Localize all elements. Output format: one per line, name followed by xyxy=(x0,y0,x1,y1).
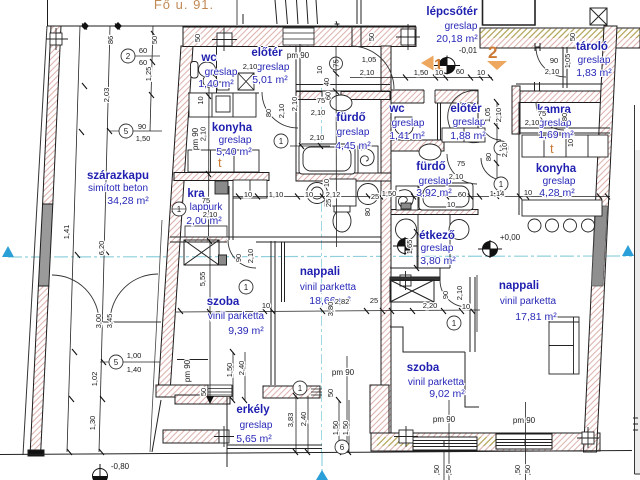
svg-text:75: 75 xyxy=(538,109,546,118)
svg-text:1: 1 xyxy=(499,180,504,189)
svg-text:40: 40 xyxy=(322,78,331,86)
erkely west jamb xyxy=(370,385,389,433)
section marker triangle bottom xyxy=(316,470,328,480)
svg-text:tároló: tároló xyxy=(576,41,608,53)
szobaL/nappaliL divider xyxy=(271,241,285,385)
dim line below windows right xyxy=(525,451,527,480)
svg-text:pm 90: pm 90 xyxy=(183,359,192,382)
korridor wall x229 xyxy=(229,186,233,240)
wall below fürdöR tub xyxy=(391,210,478,215)
svg-text:vinil parketta: vinil parketta xyxy=(500,296,557,307)
svg-text:1: 1 xyxy=(298,384,303,393)
dim vertical 5-55 xyxy=(209,241,211,398)
kamra door arc xyxy=(536,102,564,130)
svg-text:1,50: 1,50 xyxy=(136,134,151,143)
svg-text:1,50: 1,50 xyxy=(225,363,234,378)
svg-text:2,10: 2,10 xyxy=(494,108,503,123)
svg-text:greslap: greslap xyxy=(445,21,478,32)
svg-text:1,41: 1,41 xyxy=(62,225,71,240)
chimney box top wall 1 xyxy=(217,33,232,46)
konyhaR door arc xyxy=(481,158,503,180)
svg-text:+0,00: +0,00 xyxy=(500,233,521,242)
elöterL/fürdöL wall x296 xyxy=(296,46,300,143)
svg-text:wc: wc xyxy=(200,52,217,64)
etkezo bottom line xyxy=(390,267,418,269)
svg-text:9,39 m²: 9,39 m² xyxy=(228,325,264,337)
fürdöR door arc xyxy=(447,154,477,184)
svg-text:2,40: 2,40 xyxy=(299,412,308,427)
dim line wcL korridor xyxy=(290,145,330,147)
wcL toilet xyxy=(199,62,216,77)
cyan vertical section line mid xyxy=(321,88,323,452)
svg-text:2,10: 2,10 xyxy=(449,172,464,181)
X-box etkezo xyxy=(390,280,434,302)
kra room rect xyxy=(233,180,267,198)
svg-text:2,82: 2,82 xyxy=(335,297,350,306)
fürdöR washer xyxy=(396,186,418,210)
svg-text:-0,01: -0,01 xyxy=(459,46,478,55)
svg-text:Fő u. 91.: Fő u. 91. xyxy=(154,0,214,12)
cross marks south right xyxy=(577,427,599,448)
pm90 line szobaR s xyxy=(448,400,450,480)
svg-text:2,10: 2,10 xyxy=(500,143,509,158)
pm90 line nappaliR s xyxy=(525,402,527,452)
svg-text:greslap: greslap xyxy=(205,67,238,78)
svg-text:vinil parketta: vinil parketta xyxy=(208,311,265,322)
dim chain vertical left1 xyxy=(67,26,80,452)
dimension ticks xyxy=(67,24,610,456)
dim chain vertical left2 xyxy=(99,26,110,452)
svg-text:90: 90 xyxy=(234,254,243,262)
svg-text:4,28 m²: 4,28 m² xyxy=(539,187,575,199)
cross marks south left xyxy=(394,426,418,447)
svg-text:10: 10 xyxy=(315,66,324,74)
svg-text:szoba: szoba xyxy=(407,362,440,374)
svg-text:szoba: szoba xyxy=(207,296,240,308)
fürdöL washer xyxy=(358,146,378,173)
south window szoba-R opening white xyxy=(413,437,477,450)
outer west wall gray mid (gate pocket) xyxy=(38,204,52,286)
szobaR door arc xyxy=(440,280,467,307)
pm90 line elöterL xyxy=(299,44,301,68)
svg-text:fürdő: fürdő xyxy=(336,112,365,124)
svg-text:1,83 m²: 1,83 m² xyxy=(576,67,612,79)
washer door pivot xyxy=(401,203,411,209)
szobaR top wall + step xyxy=(390,327,479,407)
X-box top right corner xyxy=(590,8,607,25)
dim chain y196 xyxy=(233,196,610,198)
svg-text:17,81 m²: 17,81 m² xyxy=(515,311,557,323)
svg-text:greslap: greslap xyxy=(337,127,370,138)
fürdöL bathtub xyxy=(299,144,355,174)
svg-text:1,50: 1,50 xyxy=(382,189,397,198)
outer west wall hatched lower xyxy=(30,286,49,452)
konyhaL door arc xyxy=(262,92,298,128)
benchmark nappaliR xyxy=(478,240,502,258)
window in top wall above elöterL xyxy=(283,28,314,45)
svg-text:5: 5 xyxy=(114,358,119,367)
lepcsoter-elöter door arc xyxy=(351,46,394,89)
windows south szobaR lines xyxy=(413,440,477,447)
svg-text:wc: wc xyxy=(388,103,405,115)
svg-text:1,05: 1,05 xyxy=(563,54,572,69)
wall erkely north right part xyxy=(263,386,320,398)
svg-text:60: 60 xyxy=(324,92,333,100)
svg-text:2,10: 2,10 xyxy=(243,62,258,71)
svg-text:6: 6 xyxy=(340,443,345,452)
windows south nappaliR lines xyxy=(496,439,552,446)
konyhaR north wall xyxy=(519,128,610,133)
svg-text:80: 80 xyxy=(484,153,493,161)
nappali north wall y236-241 xyxy=(170,237,381,242)
svg-text:50: 50 xyxy=(367,33,376,41)
dim stub above wcL xyxy=(236,0,238,25)
svg-text:2,10: 2,10 xyxy=(545,67,560,76)
svg-text:1: 1 xyxy=(177,205,182,214)
svg-text:10: 10 xyxy=(566,139,575,147)
gate sill line xyxy=(100,321,161,323)
svg-text:t: t xyxy=(550,141,554,156)
svg-text:2: 2 xyxy=(126,52,131,61)
svg-text:5,65 m²: 5,65 m² xyxy=(236,433,272,445)
chimney box erkely parapet xyxy=(219,430,229,443)
svg-text:1,40: 1,40 xyxy=(127,365,142,374)
svg-text:10: 10 xyxy=(305,190,313,199)
svg-text:80: 80 xyxy=(560,113,569,121)
svg-text:90: 90 xyxy=(441,291,450,299)
wardrobe nappaliR xyxy=(549,317,579,374)
svg-text:2,10: 2,10 xyxy=(310,133,325,142)
svg-text:greslap: greslap xyxy=(578,55,611,66)
svg-text:greslap: greslap xyxy=(392,118,425,129)
svg-text:vinil parketta: vinil parketta xyxy=(408,377,465,388)
svg-text:1,25: 1,25 xyxy=(144,67,153,82)
benchmark etkezo xyxy=(393,237,417,255)
section marker triangle right xyxy=(622,245,634,256)
svg-text:1,30: 1,30 xyxy=(88,416,97,431)
svg-text:3,83: 3,83 xyxy=(286,413,295,428)
svg-text:étkező: étkező xyxy=(419,230,455,242)
elöterR door arc xyxy=(448,91,483,143)
svg-text:20,18 m²: 20,18 m² xyxy=(436,33,478,45)
svg-text:1,02: 1,02 xyxy=(90,372,99,387)
dim line left y131 xyxy=(132,130,162,132)
svg-text:10: 10 xyxy=(462,302,470,311)
svg-text:80: 80 xyxy=(264,109,273,117)
dark square szobaL box xyxy=(219,255,227,265)
south wall band right unit xyxy=(371,433,600,451)
benchmark bottom left xyxy=(93,464,108,480)
svg-text:1,41 m²: 1,41 m² xyxy=(389,130,425,142)
svg-text:50: 50 xyxy=(568,33,577,41)
right edge scrollbar strip xyxy=(635,150,640,475)
svg-text:86: 86 xyxy=(106,36,115,44)
svg-text:előtér: előtér xyxy=(251,47,283,59)
svg-text:lépcsőtér: lépcsőtér xyxy=(426,6,478,18)
etkezo table xyxy=(418,215,450,269)
svg-text:greslap: greslap xyxy=(421,243,454,254)
konyhaR west wall xyxy=(518,102,520,215)
svg-text:előtér: előtér xyxy=(450,103,482,115)
svg-text:10: 10 xyxy=(244,190,252,199)
konyhaL sink xyxy=(216,96,230,112)
svg-text:2,40: 2,40 xyxy=(237,361,246,376)
lepcsoter west wall jamb below xyxy=(352,26,361,46)
svg-text:2,10: 2,10 xyxy=(290,97,299,112)
svg-text:10: 10 xyxy=(196,96,205,104)
svg-text:szárazkapu: szárazkapu xyxy=(87,170,149,182)
dim line left gate xyxy=(112,361,160,363)
top boundary line y26 xyxy=(47,25,416,27)
svg-text:34,28 m²: 34,28 m² xyxy=(107,195,149,207)
shower box wcL xyxy=(238,73,254,90)
fürdöR sink xyxy=(419,144,441,160)
svg-text:pm 90: pm 90 xyxy=(513,416,536,425)
svg-text:1,05: 1,05 xyxy=(483,108,492,123)
wall band B right (kamra north) xyxy=(519,91,604,103)
fürdöL north wall hatch xyxy=(296,92,322,100)
svg-text:3,92 m²: 3,92 m² xyxy=(416,187,452,199)
section line horizontal cyan xyxy=(8,256,632,480)
svg-text:5,40 m²: 5,40 m² xyxy=(216,146,252,158)
szobaR east wall xyxy=(470,277,475,352)
dim verticals erkely xyxy=(233,352,245,400)
svg-text:,50: ,50 xyxy=(523,465,532,475)
svg-text:9,02 m²: 9,02 m² xyxy=(429,388,465,400)
nappali window lines right xyxy=(311,389,322,395)
svg-text:2,10: 2,10 xyxy=(203,210,218,219)
wall wcR/fürdöR xyxy=(391,140,444,151)
svg-text:greslap: greslap xyxy=(453,117,486,128)
svg-text:90: 90 xyxy=(550,56,558,65)
svg-text:50: 50 xyxy=(199,388,208,396)
svg-text:25: 25 xyxy=(371,192,379,201)
gate arc left xyxy=(52,275,99,322)
pm90 line szobaR w xyxy=(346,356,348,443)
svg-text:greslap: greslap xyxy=(240,420,273,431)
chimney box south wall right xyxy=(582,432,594,444)
svg-text:2,10: 2,10 xyxy=(525,118,540,127)
vertical wall elöterR/kamra xyxy=(512,86,520,134)
svg-text:2,12: 2,12 xyxy=(326,190,341,199)
svg-text:90: 90 xyxy=(138,122,146,131)
svg-text:greslap: greslap xyxy=(543,176,576,187)
svg-text:5: 5 xyxy=(124,127,129,136)
svg-text:simított beton: simított beton xyxy=(88,183,148,194)
dim chain y74 xyxy=(350,77,492,79)
etkezo stool left xyxy=(396,219,417,240)
svg-text:10: 10 xyxy=(435,68,443,77)
section marker triangle left xyxy=(2,246,14,257)
dim line konyha vertical xyxy=(208,88,211,236)
dim vertical 1-65 xyxy=(416,232,418,268)
svg-text:2,10: 2,10 xyxy=(199,127,208,142)
svg-text:,50: ,50 xyxy=(432,465,441,475)
svg-text:erkély: erkély xyxy=(236,404,270,416)
svg-text:1,00: 1,00 xyxy=(127,351,142,360)
svg-text:fürdő: fürdő xyxy=(416,161,445,173)
svg-text:pm 90: pm 90 xyxy=(287,51,310,60)
nappaliL north wall hatch xyxy=(184,238,227,243)
east outer wall hatched xyxy=(584,26,618,452)
dim line below windows left xyxy=(443,451,445,480)
svg-text:60: 60 xyxy=(139,58,147,67)
west wall outer face line xyxy=(23,26,47,455)
kra dark square xyxy=(215,181,228,194)
konyhaR counter top row xyxy=(522,135,608,157)
cross marks chimney 1 xyxy=(212,28,237,51)
center divider wall between units xyxy=(381,46,391,433)
wc2L toilet xyxy=(333,210,351,232)
chimney box etkezo shelf xyxy=(400,275,411,286)
fürdöL west lower xyxy=(295,143,297,173)
chimney box west wall top xyxy=(50,33,62,45)
diamond markers on y26 line xyxy=(81,22,122,30)
svg-text:5,01 m²: 5,01 m² xyxy=(252,74,288,86)
circled 75 dim xyxy=(330,57,343,70)
svg-text:25: 25 xyxy=(370,296,378,305)
svg-text:3,80 m²: 3,80 m² xyxy=(420,255,456,267)
svg-text:2,10: 2,10 xyxy=(311,108,326,117)
szobaL window to erkely xyxy=(208,385,232,397)
dim vertical right of elöterR xyxy=(496,102,498,196)
tarolo door jambs xyxy=(535,43,540,51)
svg-text:greslap: greslap xyxy=(219,135,252,146)
svg-text:vinil parketta: vinil parketta xyxy=(300,282,357,293)
erkely door jambs xyxy=(232,385,263,398)
svg-text:10: 10 xyxy=(322,179,331,187)
erkely east post xyxy=(226,397,228,467)
wc2L sink circle xyxy=(358,184,379,205)
svg-text:2,10: 2,10 xyxy=(246,249,255,264)
svg-text:1,88 m²: 1,88 m² xyxy=(450,130,486,142)
svg-text:4,45 m²: 4,45 m² xyxy=(335,140,371,152)
svg-text:1,65: 1,65 xyxy=(405,240,414,255)
dim chain y311 xyxy=(176,310,480,312)
stairs above band xyxy=(243,0,340,27)
dim verticals szobaR window xyxy=(339,400,349,452)
rotated dimension texts xyxy=(62,33,577,475)
svg-text:nappali: nappali xyxy=(499,280,539,292)
X-box szobaL xyxy=(184,240,219,265)
wc2L vanity counter xyxy=(325,179,356,206)
etkezo shelf thick xyxy=(390,277,440,281)
etkezo stool right xyxy=(449,220,469,240)
svg-text:pm 90: pm 90 xyxy=(332,368,355,377)
svg-text:50: 50 xyxy=(193,34,202,42)
outer west wall hatched upper xyxy=(43,26,61,204)
svg-text:75: 75 xyxy=(202,196,210,205)
konyhaL counter bottom row xyxy=(188,150,259,172)
svg-text:1: 1 xyxy=(452,319,457,328)
chimney box top wall 2 xyxy=(401,29,415,45)
svg-text:60: 60 xyxy=(458,190,466,199)
wcL sink xyxy=(191,62,199,79)
konyhaR burners xyxy=(528,219,541,232)
szobaL door arc xyxy=(228,240,256,268)
svg-text:60: 60 xyxy=(139,46,147,55)
svg-text:60: 60 xyxy=(456,67,464,76)
svg-text:2,10: 2,10 xyxy=(455,286,464,301)
svg-text:,50: ,50 xyxy=(513,465,522,475)
svg-text:,50: ,50 xyxy=(444,465,453,475)
erkely west line xyxy=(152,400,161,452)
fürdöL south wall hatch xyxy=(296,173,391,181)
konyhaL counter top row xyxy=(189,93,256,117)
wcR door opening in band B xyxy=(424,89,435,104)
wall erkely north left part xyxy=(156,385,208,397)
svg-text:1: 1 xyxy=(244,283,249,292)
right edge marks xyxy=(633,418,638,430)
svg-text:2,10: 2,10 xyxy=(360,68,375,77)
svg-text:3,00: 3,00 xyxy=(94,314,103,329)
svg-text:1,40 m²: 1,40 m² xyxy=(198,78,234,90)
svg-text:3,80: 3,80 xyxy=(326,302,335,317)
svg-text:80: 80 xyxy=(363,208,372,216)
cross marks west top xyxy=(46,28,68,50)
svg-text:2,20: 2,20 xyxy=(423,301,438,310)
cross marks chimney 2 xyxy=(396,24,420,50)
cross marks erkely parapet xyxy=(214,426,234,447)
cross marks etkezo shelf xyxy=(396,271,415,290)
tarolo west wall xyxy=(563,47,567,88)
svg-text:75: 75 xyxy=(457,159,465,168)
inner west wall of left unit (hatched, slanted) xyxy=(159,46,194,385)
elöterR west wall xyxy=(477,103,479,140)
yellow tint patches south band xyxy=(377,437,415,446)
svg-text:pm 90: pm 90 xyxy=(433,415,456,424)
svg-text:10: 10 xyxy=(262,301,270,310)
svg-text:greslap: greslap xyxy=(257,62,290,73)
svg-text:1,50: 1,50 xyxy=(331,421,340,436)
south window nappali-R opening white xyxy=(496,434,552,449)
dim verticals erkely south xyxy=(296,396,308,452)
dim chain vertical left3 xyxy=(150,26,153,131)
svg-text:2,03: 2,03 xyxy=(102,88,111,103)
fürdöL north wall xyxy=(296,85,390,92)
orange marker 1 with triangle xyxy=(421,56,434,71)
kamra west door arc xyxy=(481,120,501,140)
east wall gray sliding panel xyxy=(592,206,608,286)
tarolo south line xyxy=(516,82,603,91)
svg-text:10: 10 xyxy=(447,200,455,209)
fürdöL sink xyxy=(330,95,352,111)
chimney box south wall left xyxy=(399,430,413,443)
wcL/konyha wall y93 xyxy=(188,92,259,94)
wcR toilet xyxy=(395,119,413,135)
svg-text:5,55: 5,55 xyxy=(198,272,207,287)
lepcsoter west wall above xyxy=(357,0,361,24)
ground line bottom xyxy=(0,451,632,455)
svg-text:konyha: konyha xyxy=(536,163,577,175)
svg-text:nappali: nappali xyxy=(300,266,340,278)
svg-text:10: 10 xyxy=(524,188,532,197)
svg-text:konyha: konyha xyxy=(212,122,253,134)
svg-text:3,45: 3,45 xyxy=(105,314,114,329)
top wall band A1 xyxy=(183,27,416,47)
szobaL south line xyxy=(177,359,208,361)
circled number leader lines xyxy=(100,56,186,362)
svg-text:1,50: 1,50 xyxy=(341,421,350,436)
benchmark lepcsoter xyxy=(434,56,460,75)
szarazkapu right boundary line xyxy=(150,220,162,452)
elöterR shelf xyxy=(442,128,485,142)
top wall band A2 xyxy=(480,28,640,48)
kra south cabinet row xyxy=(185,226,227,237)
gate arc right xyxy=(110,274,158,322)
svg-text:-0,80: -0,80 xyxy=(111,462,130,471)
outer west wall bottom black cap xyxy=(28,450,44,456)
